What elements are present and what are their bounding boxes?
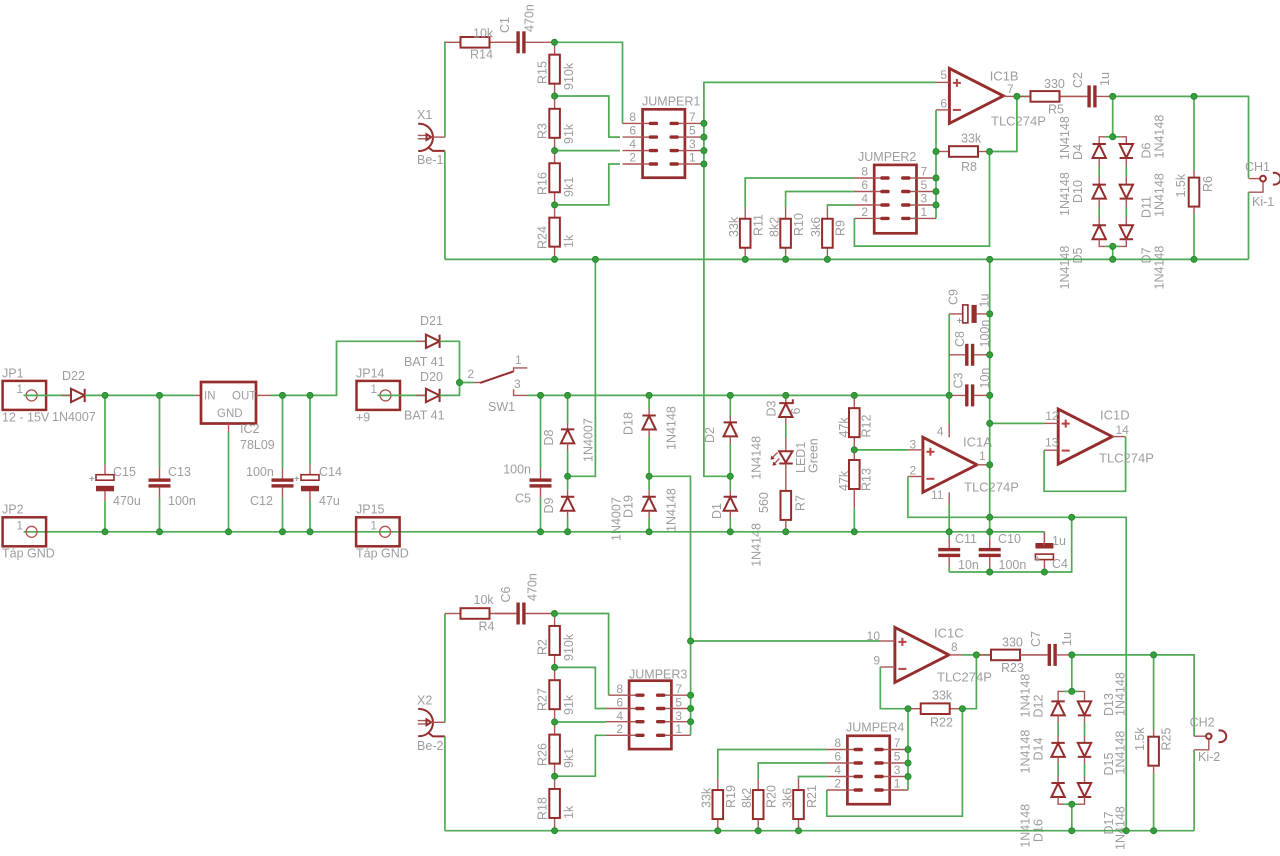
IC1D feedback loop [1044,437,1126,492]
node R3-R16 [552,148,558,154]
svg-text:330: 330 [1002,636,1023,650]
ch2 bottom rail [445,830,1194,832]
array2 wires row1-row2 [1057,716,1059,723]
resistor R11 [744,207,746,219]
svg-text:8: 8 [834,736,841,750]
wire X1 tip up to R14 [444,42,446,137]
IC2 GND pin down [228,424,230,433]
svg-text:470u: 470u [113,494,141,508]
svg-text:R3: R3 [536,123,550,139]
svg-text:1: 1 [689,151,696,165]
node array1 bottom [1110,243,1116,249]
svg-text:5: 5 [689,124,696,138]
svg-text:3: 3 [514,377,521,391]
svg-text:R11: R11 [752,214,766,236]
svg-text:C14: C14 [319,465,342,479]
svg-text:D11: D11 [1139,196,1153,218]
wire IC1B output to R5 [1017,95,1030,97]
wire to diode array2 top [1071,655,1073,692]
svg-text:R27: R27 [536,688,550,711]
node IC2 gnd rail [225,529,231,535]
svg-text:JUMPER4: JUMPER4 [846,721,904,735]
svg-text:1N4148: 1N4148 [1114,731,1128,775]
node C1-R15 junction [551,39,557,45]
wire +9 column to C9/C8 [948,314,950,396]
connector X1 [418,124,433,151]
node gnd bias crossing [987,529,993,535]
bias bottom rail [949,517,1071,572]
svg-text:2: 2 [861,205,868,219]
node D19 rail [646,529,652,535]
node JUMPER2 pin5 [933,188,939,194]
svg-text:Green: Green [807,438,821,473]
svg-text:8: 8 [616,682,623,696]
connector CH2 jack [1194,735,1206,737]
svg-text:R23: R23 [1001,661,1024,675]
svg-text:D5: D5 [1071,247,1085,263]
wire R22 right to output [962,655,976,709]
jumper JUMPER4 [847,736,889,804]
wire CH2 sleeve to rail [1193,750,1195,831]
ch1 bottom rail [445,258,1249,260]
svg-text:91k: 91k [562,694,576,715]
svg-text:+: + [294,474,300,485]
svg-text:1N4148: 1N4148 [1019,804,1033,848]
svg-text:1: 1 [979,449,986,463]
svg-text:R26: R26 [536,743,550,766]
svg-text:C2: C2 [1071,72,1085,88]
svg-text:6: 6 [789,408,803,415]
bias column x989 [989,259,991,531]
connector JP1 [3,381,47,410]
svg-text:C7: C7 [1029,631,1043,647]
node R12 top [851,392,857,398]
svg-text:1N4148: 1N4148 [1058,116,1072,160]
svg-text:5: 5 [940,68,947,82]
svg-text:+9: +9 [356,411,370,425]
array2 bottom gather [1058,797,1064,804]
diode D19 [648,476,650,490]
IC1C pin8 output [949,654,962,656]
node R15-R3 [552,93,558,99]
node array2 on rail [1069,828,1075,834]
svg-text:6: 6 [616,695,623,709]
svg-text:Táp GND: Táp GND [356,547,409,561]
svg-text:100n: 100n [999,558,1027,572]
node R16-R24 [552,202,558,208]
wire R15-R3 junction to JUMPER1 pin6 [555,96,620,137]
node bias C9 [987,311,993,317]
svg-text:7: 7 [921,165,928,179]
CH1 sleeve [1249,182,1264,192]
svg-text:IC1D: IC1D [1100,408,1130,423]
wire to diode array top [1112,96,1114,136]
node R6 bottom [1191,256,1197,262]
wire JP1 to D22 [24,394,72,396]
svg-text:D9: D9 [542,497,556,513]
svg-text:1N4148: 1N4148 [749,523,763,567]
wire X2 sleeve down to ch2 rail [444,736,446,830]
capacitor C4 top stub [1043,532,1045,546]
svg-text:33k: 33k [727,216,741,237]
svg-text:JUMPER2: JUMPER2 [858,150,916,164]
gnd rail [24,531,1045,533]
JUMPER3 right pins [671,694,690,696]
node rail to bias column [987,256,993,262]
svg-text:8: 8 [861,165,868,179]
svg-text:1u: 1u [1052,534,1066,548]
svg-text:TLC274P: TLC274P [964,480,1019,495]
svg-text:1u: 1u [978,294,992,308]
resistor R21 [798,778,800,790]
node D3 top [783,392,789,398]
svg-text:JUMPER1: JUMPER1 [642,95,700,109]
wire SW1 pin3 to +9 rail [527,394,949,396]
wire R27-R26 junction to JUMPER3 pin4 [555,721,606,723]
wire X2 tip up to R4 [444,614,446,723]
wire R2-R27 junction to JUMPER3 pin6 [555,667,606,708]
resistor R15 [554,42,556,54]
svg-text:C6: C6 [499,586,513,602]
array1 wires row2-row3 [1098,199,1100,207]
diode D3 [785,395,787,403]
capacitor C14 [309,395,311,464]
svg-text:R14: R14 [470,48,493,62]
node array2 bottom [1069,801,1075,807]
svg-text:100n: 100n [246,465,274,479]
svg-text:C1: C1 [498,17,512,33]
svg-text:R4: R4 [479,620,495,634]
svg-text:JUMPER3: JUMPER3 [629,668,687,682]
svg-text:8: 8 [629,110,636,124]
diode D20 [416,394,426,396]
svg-text:9k1: 9k1 [562,177,576,197]
svg-text:IN: IN [204,391,216,403]
diode D11 [1120,185,1133,199]
svg-text:3: 3 [921,192,928,206]
svg-text:D8: D8 [542,429,556,445]
svg-text:R22: R22 [930,716,953,730]
svg-text:7: 7 [675,682,682,696]
svg-text:6: 6 [940,97,947,111]
node JUMPER3 pin3 [688,719,694,725]
svg-text:12: 12 [1045,409,1059,423]
capacitor C10 [989,532,991,538]
svg-text:Táp GND: Táp GND [2,547,55,561]
svg-text:1.5k: 1.5k [1174,173,1188,197]
svg-text:GND: GND [217,408,243,420]
node IC1B output [1014,93,1020,99]
node JUMPER1 pin1 [701,161,707,167]
node R12-R13 [851,447,857,453]
svg-text:2: 2 [834,777,841,791]
JUMPER4 left pins [827,749,848,751]
svg-text:R19: R19 [724,785,738,808]
capacitor C3 [949,394,965,396]
LED1 arrows [772,453,780,465]
diode D10 [1093,185,1106,199]
svg-text:C8: C8 [953,331,967,347]
svg-text:OUT: OUT [232,391,256,403]
svg-text:R13: R13 [859,468,873,491]
node R7 rail [783,529,789,535]
wire CH1 sleeve to rail [1248,192,1250,259]
node R21 rail [795,828,801,834]
IC1B pin6 input [936,109,949,111]
node JUMPER1 pin5 [701,134,707,140]
svg-text:C11: C11 [955,532,977,546]
wire R26-R18 junction to JUMPER3 pin2 [555,735,606,776]
node JUMPER2 pin3 [933,202,939,208]
IC1A pin2 [908,476,923,478]
svg-text:6: 6 [861,178,868,192]
svg-text:Be-1: Be-1 [417,153,443,167]
svg-text:D19: D19 [622,495,636,518]
wire output to R23 [976,654,991,656]
svg-text:1N4148: 1N4148 [1114,672,1128,716]
svg-text:3: 3 [894,763,901,777]
svg-text:470n: 470n [523,4,537,32]
capacitor C7 [1020,654,1048,656]
resistor R2 [554,614,556,626]
svg-text:R7: R7 [794,495,808,511]
wire R22 right down to jumper4 pin2 net [827,709,963,817]
node R19 rail [715,828,721,834]
svg-text:8: 8 [951,640,958,654]
svg-text:560: 560 [757,492,771,513]
jumper JUMPER1 [643,109,685,177]
svg-text:D7: D7 [1139,247,1153,263]
wire JUMPER4 pin6 to R20 [758,763,827,778]
svg-text:2: 2 [629,151,636,165]
svg-text:1N4148: 1N4148 [665,488,679,532]
X1 sleeve contact [429,148,445,151]
resistor R7 [781,491,792,520]
svg-text:JP2: JP2 [2,503,24,517]
node feedback x1071 [1069,514,1075,520]
node R20 rail [755,828,761,834]
diode D13 [1078,701,1091,715]
wire pin12 line to IC1D [990,422,1044,424]
svg-text:4: 4 [937,425,944,439]
svg-text:Be-2: Be-2 [417,739,443,753]
JUMPER1 left pins [623,122,643,124]
jumper JUMPER3 [629,681,671,749]
svg-text:91k: 91k [562,123,576,144]
connector CH1 jack [1249,178,1261,180]
wire rail to D8/D9 mid [568,259,596,476]
svg-text:1N4007: 1N4007 [52,410,96,424]
svg-text:D10: D10 [1071,180,1085,203]
svg-text:X2: X2 [417,694,432,708]
svg-text:910k: 910k [562,633,576,661]
svg-text:8k2: 8k2 [740,788,754,808]
svg-text:13: 13 [1045,436,1059,450]
node bias rail C10 [987,569,993,575]
svg-text:78L09: 78L09 [240,438,275,452]
IC1A pin1 output [977,464,990,466]
IC1D pin14 output [1112,436,1125,438]
svg-text:8k2: 8k2 [767,217,781,237]
node C2 right [1110,93,1116,99]
capacitor C12 [282,395,284,468]
node D1 rail [727,529,733,535]
IC1A pin3 [908,449,923,451]
svg-text:+: + [957,315,963,326]
svg-text:R2: R2 [536,639,550,655]
IC1C pin10 input [880,640,895,642]
svg-text:1N4148: 1N4148 [1152,115,1166,159]
svg-text:330: 330 [1044,77,1065,91]
resistor R9 [826,207,828,219]
capacitor C4 [1043,532,1045,543]
svg-text:+: + [89,474,95,485]
diode D6 [1120,144,1133,158]
svg-text:1N4148: 1N4148 [749,436,763,480]
node diode array1 top [1110,134,1116,140]
svg-text:R15: R15 [536,61,550,84]
svg-text:1N4148: 1N4148 [1152,246,1166,290]
connector X2 [418,709,433,736]
wire to SW1 pin2 [460,382,475,384]
resistor R25 [1153,655,1155,729]
svg-text:10k: 10k [473,27,494,41]
op-amp IC1B [949,68,1003,123]
node JUMPER4 pin3 [905,773,911,779]
node switch common [456,379,462,385]
svg-text:11: 11 [931,488,944,502]
svg-text:D12: D12 [1032,695,1046,718]
resistor R12 [853,395,855,408]
svg-text:R8: R8 [961,160,977,174]
node JUMPER3 top [688,638,694,644]
svg-text:47u: 47u [319,494,340,508]
svg-text:IC1C: IC1C [934,626,964,641]
node R25 bottom [1151,828,1157,834]
node R8 right [986,148,992,154]
node gnd pin11 column [946,529,952,535]
connector JP15 [356,517,400,546]
op-amp IC1A [923,437,977,492]
svg-text:6: 6 [834,750,841,764]
svg-text:D21: D21 [420,314,443,328]
wire JP14 to D20 [378,394,426,396]
node R11 rail [742,256,748,262]
wire JUMPER2 pin8 to R11 [745,178,854,207]
node rail x595 [592,256,598,262]
svg-text:R21: R21 [805,785,819,808]
diode D4 [1093,144,1106,158]
svg-text:100n: 100n [978,320,992,348]
wire JUMPER1 right column to IC1B noninverting and D1/D2 mid [704,82,936,476]
node bias rail C4 [1041,569,1047,575]
svg-text:CH1: CH1 [1245,160,1270,174]
svg-text:R18: R18 [536,797,550,820]
IC2 OUT pin [256,394,271,396]
svg-text:7: 7 [689,110,696,124]
regulator IC2 78L09 [201,382,256,424]
wire D20 to switch node [440,383,460,396]
svg-text:C9: C9 [947,289,961,305]
node R27-R26 [552,719,558,725]
resistor R26 [554,722,556,735]
svg-text:D6: D6 [1139,142,1153,158]
svg-text:R12: R12 [859,415,873,438]
resistor R19 [717,778,719,790]
resistor R14 [445,41,461,43]
svg-text:C12: C12 [250,494,273,508]
wire R8 right down to jumper2 pin2 net [854,152,989,247]
node JUMPER1 pin7 [701,120,707,126]
IC1A pin11 gnd [948,492,950,505]
X2 sleeve contact [429,733,445,736]
array2 wires row2-row3 [1057,757,1059,763]
node D9 rail [565,529,571,535]
svg-text:JP14: JP14 [356,367,385,381]
wire X1 sleeve down to ch1 rail [444,151,446,260]
CH2 sleeve [1194,739,1209,749]
op-amp IC1C [895,627,949,682]
resistor R3 [554,96,556,109]
svg-text:R16: R16 [536,172,550,195]
svg-text:100n: 100n [503,463,531,477]
wire IC2 OUT to D21 [271,341,426,395]
resistor R27 [554,667,556,680]
svg-text:TLC274P: TLC274P [991,114,1046,129]
node C6-R2 junction [551,610,557,616]
svg-text:Ki-2: Ki-2 [1198,750,1220,764]
svg-text:1: 1 [894,777,901,791]
node R8 left [933,148,939,154]
wire JUMPER2 pin4 to R9 [827,205,854,207]
op-amp IC1D [1058,409,1112,464]
svg-text:3k6: 3k6 [809,217,823,237]
JUMPER2 left pins [854,177,874,179]
svg-text:1: 1 [675,722,682,736]
svg-text:1: 1 [515,353,522,367]
svg-text:7: 7 [1007,82,1014,96]
svg-text:1N4148: 1N4148 [1152,173,1166,217]
node JUMPER2 pin7 [933,175,939,181]
resistor R18 [554,776,556,789]
capacitor C1 [495,41,516,43]
node C13 top [156,392,162,398]
svg-text:1u: 1u [1060,632,1074,646]
svg-text:10k: 10k [474,593,495,607]
diode D17 [1078,783,1091,797]
svg-text:2: 2 [616,722,623,736]
svg-text:4: 4 [629,137,636,151]
diode D2 [729,395,731,416]
svg-text:1: 1 [370,519,377,533]
svg-text:1.5k: 1.5k [1133,727,1147,751]
svg-text:C15: C15 [113,465,136,479]
svg-text:1N4007: 1N4007 [582,418,596,462]
svg-text:47k: 47k [837,417,851,438]
svg-text:2: 2 [910,464,917,478]
switch SW1 [474,382,480,384]
node bias C3 [987,392,993,398]
resistor R6 [1193,96,1195,170]
node C15 rail [102,529,108,535]
wire JUMPER2 pin6 to R10 [786,192,854,208]
array1 top spread [1099,137,1105,144]
node D18 top [646,392,652,398]
svg-text:D22: D22 [62,369,85,383]
svg-text:CH2: CH2 [1190,716,1215,730]
svg-text:JP1: JP1 [2,367,24,381]
svg-text:33k: 33k [700,787,714,808]
